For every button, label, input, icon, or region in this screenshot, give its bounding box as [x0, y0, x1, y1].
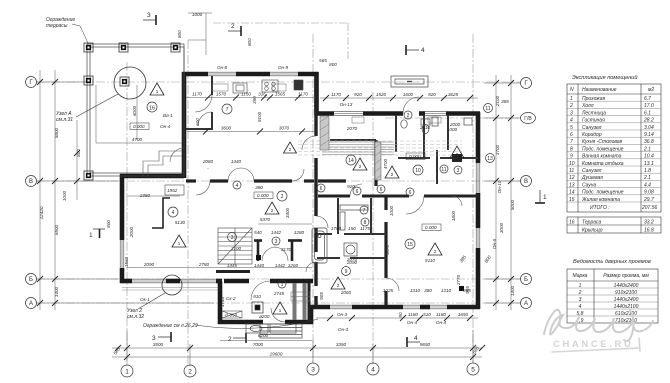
svg-text:Лестница: Лестница	[581, 110, 606, 116]
svg-text:2: 2	[231, 23, 235, 30]
svg-text:33.2: 33.2	[644, 220, 654, 226]
svg-text:5130: 5130	[175, 220, 186, 225]
svg-text:Холл: Холл	[581, 103, 594, 109]
section mark 3 bottom	[158, 332, 171, 342]
top wall kitchen room 7	[182, 72, 208, 77]
svg-text:1440х2400: 1440х2400	[614, 297, 639, 303]
exterior walls	[120, 72, 480, 324]
interior spine wall axis 3	[314, 76, 317, 305]
svg-text:17.0: 17.0	[644, 103, 654, 109]
svg-text:1170: 1170	[298, 92, 308, 97]
left dim texts	[39, 127, 81, 297]
svg-text:965: 965	[465, 286, 470, 294]
svg-text:16: 16	[149, 106, 155, 112]
sink in прихожая	[246, 324, 296, 333]
svg-text:7000: 7000	[253, 342, 264, 347]
hall staircase	[218, 228, 252, 264]
svg-text:4: 4	[172, 210, 175, 216]
svg-text:1600: 1600	[403, 92, 414, 97]
sauna block partitions	[317, 198, 386, 258]
svg-text:1440х2400: 1440х2400	[614, 283, 639, 289]
terrace steps	[143, 151, 182, 176]
svg-text:800: 800	[177, 30, 182, 38]
svg-text:3070: 3070	[279, 126, 290, 131]
upper right wing partitions	[330, 115, 478, 184]
svg-text:⌀200: ⌀200	[259, 314, 270, 319]
svg-text:1180: 1180	[436, 312, 446, 317]
right wall	[476, 112, 481, 163]
svg-text:910: 910	[253, 294, 261, 299]
svg-text:Он-4: Он-4	[160, 124, 171, 129]
section mark 1 left	[93, 229, 105, 238]
svg-text:4700: 4700	[132, 137, 143, 142]
svg-text:Ведомость дверных проемов: Ведомость дверных проемов	[573, 259, 651, 265]
svg-text:2745: 2745	[273, 291, 285, 296]
svg-text:1025: 1025	[383, 288, 394, 293]
svg-text:5110: 5110	[425, 258, 435, 263]
svg-text:1440: 1440	[231, 159, 242, 164]
svg-text:2380: 2380	[139, 193, 151, 198]
svg-text:Он-4: Он-4	[436, 320, 447, 325]
svg-text:14: 14	[569, 190, 575, 196]
svg-text:Г/В: Г/В	[524, 116, 532, 122]
svg-text:1: 1	[125, 368, 129, 375]
svg-text:террасы: террасы	[46, 23, 68, 29]
svg-text:4: 4	[371, 366, 375, 373]
door swing arcs	[170, 95, 462, 322]
svg-text:1000: 1000	[389, 205, 394, 216]
svg-text:3170: 3170	[281, 247, 292, 252]
section line 2-2 dash path	[213, 23, 348, 60]
svg-text:3: 3	[275, 239, 278, 245]
svg-text:16.8: 16.8	[644, 228, 654, 234]
svg-text:Терраса: Терраса	[582, 220, 602, 226]
wc fixtures top wing	[401, 117, 472, 162]
svg-text:Крыльцо: Крыльцо	[582, 228, 603, 234]
vent shaft hatched	[320, 116, 381, 180]
svg-text:9.14: 9.14	[644, 132, 654, 138]
svg-text:1170: 1170	[331, 92, 341, 97]
svg-text:6.1: 6.1	[644, 110, 651, 116]
svg-text:5,8: 5,8	[577, 311, 584, 317]
svg-text:0.000: 0.000	[257, 193, 269, 198]
svg-text:6: 6	[356, 189, 359, 195]
svg-text:16: 16	[569, 220, 575, 226]
svg-text:Ограждение см л.26,29: Ограждение см л.26,29	[143, 323, 198, 329]
svg-text:Сауна: Сауна	[582, 182, 597, 188]
svg-text:CHANCE.RU: CHANCE.RU	[553, 339, 633, 350]
svg-text:2080: 2080	[202, 159, 214, 164]
svg-text:540: 540	[254, 230, 262, 235]
left dim ticks	[37, 79, 80, 306]
svg-text:2: 2	[407, 113, 410, 119]
svg-text:13: 13	[569, 182, 575, 188]
svg-text:2090: 2090	[346, 260, 358, 265]
svg-text:380: 380	[255, 185, 263, 190]
svg-text:см.л.31: см.л.31	[56, 117, 73, 123]
svg-text:0.000: 0.000	[133, 124, 145, 129]
svg-text:Прихожая: Прихожая	[582, 96, 606, 102]
svg-text:8: 8	[570, 146, 573, 152]
svg-text:Размер проема, мм: Размер проема, мм	[603, 273, 649, 279]
svg-text:5370: 5370	[260, 217, 271, 222]
svg-text:Кухня -Столовая: Кухня -Столовая	[582, 139, 623, 145]
svg-text:1: 1	[543, 194, 547, 201]
svg-text:600: 600	[195, 118, 200, 126]
svg-text:Б: Б	[29, 277, 33, 283]
svg-text:7: 7	[570, 139, 573, 145]
svg-text:3: 3	[457, 168, 460, 174]
section mark 3 top	[143, 15, 156, 25]
axis circles right	[521, 78, 536, 309]
svg-text:610х2100: 610х2100	[615, 311, 637, 317]
svg-text:510: 510	[423, 312, 431, 317]
svg-text:2: 2	[188, 368, 192, 375]
svg-text:1175: 1175	[360, 226, 370, 231]
left wall	[120, 268, 125, 283]
step wall x318	[314, 72, 319, 115]
svg-text:3: 3	[231, 235, 234, 241]
svg-text:2770: 2770	[456, 274, 461, 286]
svg-text:6: 6	[409, 190, 412, 196]
svg-text:1520: 1520	[376, 92, 387, 97]
staircase upper corridor stripes	[322, 142, 394, 155]
kitchen dim line	[187, 129, 314, 135]
svg-text:Марка: Марка	[573, 273, 588, 279]
svg-text:В: В	[524, 179, 528, 185]
svg-text:1000: 1000	[62, 190, 67, 201]
svg-text:9650: 9650	[420, 342, 431, 347]
axis circles left	[26, 77, 37, 309]
svg-text:м2: м2	[648, 87, 654, 93]
detail circle node A	[114, 67, 146, 99]
svg-text:Санузел: Санузел	[582, 125, 602, 131]
svg-text:2000: 2000	[129, 226, 134, 238]
svg-text:Гостиная: Гостиная	[582, 118, 605, 124]
tambour shaft walls	[295, 283, 305, 320]
svg-text:2.1: 2.1	[643, 146, 651, 152]
svg-text:380: 380	[424, 288, 432, 293]
svg-text:4.4: 4.4	[644, 182, 651, 188]
svg-text:5: 5	[471, 366, 475, 373]
svg-text:2: 2	[281, 194, 284, 200]
kitchen triangle	[284, 142, 297, 153]
right outer dimension lines	[484, 75, 521, 310]
axis circles bottom	[121, 363, 479, 377]
svg-text:4: 4	[236, 183, 239, 189]
svg-text:Он-3: Он-3	[338, 327, 349, 332]
svg-text:5: 5	[570, 125, 573, 131]
svg-text:2610: 2610	[419, 125, 431, 130]
kitchen counter	[233, 80, 303, 93]
svg-text:Санузел: Санузел	[582, 168, 602, 174]
svg-text:Он-9: Он-9	[278, 65, 289, 70]
svg-text:Ок-1: Ок-1	[140, 297, 150, 302]
svg-text:1310: 1310	[441, 288, 452, 293]
svg-text:1400: 1400	[54, 286, 59, 297]
terrace columns	[84, 43, 180, 180]
svg-text:1400: 1400	[510, 285, 515, 296]
svg-text:2: 2	[228, 336, 232, 343]
bathroom block east wall x376	[376, 140, 386, 305]
terrace sub-table	[567, 217, 661, 233]
svg-text:Ск-2: Ск-2	[226, 296, 236, 301]
watermark	[544, 310, 653, 341]
svg-text:10.4: 10.4	[644, 154, 654, 160]
small wc room in kitchen corner	[186, 76, 212, 130]
svg-text:316: 316	[258, 92, 266, 97]
svg-text:565: 565	[319, 58, 327, 63]
svg-text:Подс. помещение: Подс. помещение	[582, 190, 624, 196]
svg-text:4: 4	[414, 335, 418, 342]
svg-text:920: 920	[428, 92, 436, 97]
svg-text:3: 3	[570, 110, 573, 116]
top small dims near section 3	[188, 13, 212, 55]
svg-text:9100: 9100	[257, 111, 262, 122]
svg-text:1280: 1280	[294, 230, 305, 235]
section mark 2 top	[228, 26, 241, 36]
porch steps	[260, 324, 302, 338]
svg-text:3: 3	[152, 335, 156, 342]
svg-text:А: А	[29, 301, 33, 307]
svg-text:1: 1	[281, 282, 284, 288]
svg-text:1: 1	[89, 232, 93, 239]
svg-text:15: 15	[407, 242, 413, 248]
svg-text:5800: 5800	[54, 127, 59, 138]
svg-text:1952: 1952	[167, 188, 178, 193]
svg-text:Жилая комната: Жилая комната	[581, 197, 620, 203]
svg-text:12: 12	[569, 175, 575, 181]
svg-text:28.2: 28.2	[643, 118, 654, 124]
svg-text:2100: 2100	[495, 95, 500, 107]
svg-text:14: 14	[348, 158, 354, 164]
svg-text:1140: 1140	[476, 130, 481, 140]
svg-text:9.08: 9.08	[644, 190, 654, 196]
svg-text:9: 9	[570, 154, 573, 160]
svg-text:1440х2100: 1440х2100	[614, 304, 639, 310]
svg-text:1000: 1000	[192, 12, 203, 17]
svg-text:920: 920	[347, 184, 355, 189]
svg-text:см.л.32: см.л.32	[127, 314, 144, 320]
section mark 4 top right	[406, 45, 419, 55]
svg-text:6500: 6500	[54, 224, 59, 235]
top edge of living room to terrace	[120, 174, 184, 179]
svg-text:19600: 19600	[270, 352, 283, 357]
svg-text:3: 3	[147, 12, 151, 19]
svg-text:2070: 2070	[346, 126, 358, 131]
svg-text:Ва-1: Ва-1	[163, 113, 173, 118]
north wall right wing	[316, 111, 334, 116]
hall lower step	[309, 305, 314, 324]
svg-text:Комната отдыха: Комната отдыха	[582, 161, 624, 167]
svg-text:1560: 1560	[124, 256, 129, 267]
radiator rects	[212, 84, 441, 123]
room 16 circle	[147, 102, 157, 112]
axis grid lines	[36, 34, 521, 365]
svg-text:6: 6	[570, 132, 573, 138]
svg-text:11: 11	[441, 167, 446, 173]
svg-text:1442: 1442	[271, 230, 282, 235]
svg-text:800: 800	[106, 220, 111, 228]
svg-text:В: В	[29, 179, 33, 185]
svg-text:207.56: 207.56	[641, 205, 658, 211]
svg-text:1700: 1700	[331, 226, 342, 231]
svg-text:1800: 1800	[451, 210, 456, 221]
svg-text:13: 13	[487, 156, 493, 162]
svg-text:150: 150	[348, 226, 356, 231]
svg-text:1180: 1180	[408, 312, 418, 317]
room number circles	[168, 104, 495, 289]
svg-text:800: 800	[76, 149, 81, 157]
svg-text:Он-3: Он-3	[337, 312, 348, 317]
svg-text:90: 90	[398, 312, 403, 318]
corridor south wall y196	[318, 195, 478, 198]
svg-text:385: 385	[501, 99, 509, 104]
svg-text:3: 3	[579, 297, 582, 303]
terrace railing	[87, 44, 184, 176]
svg-text:1: 1	[570, 96, 573, 102]
roof vent box	[391, 76, 428, 87]
svg-text:4: 4	[579, 304, 582, 310]
svg-text:4700: 4700	[383, 158, 388, 169]
svg-text:Экспликация помещений: Экспликация помещений	[572, 74, 638, 81]
svg-text:3600: 3600	[221, 126, 232, 131]
svg-text:7: 7	[363, 208, 366, 214]
svg-text:1570: 1570	[216, 92, 227, 97]
svg-text:1650: 1650	[458, 312, 469, 317]
svg-text:2: 2	[569, 103, 573, 109]
svg-text:6000: 6000	[132, 105, 137, 116]
svg-text:2.1: 2.1	[643, 175, 651, 181]
svg-text:5000: 5000	[510, 199, 515, 210]
windows (thin triple lines in wall gaps)	[120, 72, 480, 309]
upper window dim chain room7	[186, 95, 478, 102]
floor drain	[252, 302, 263, 313]
left wall upper (terrace side)	[182, 72, 187, 178]
misc interior dim texts	[124, 58, 509, 307]
svg-text:Коридор: Коридор	[582, 132, 602, 138]
living room dim lines	[126, 196, 312, 268]
bath	[312, 205, 368, 263]
svg-text:1000: 1000	[447, 127, 458, 132]
svg-text:..: ..	[207, 165, 210, 170]
svg-text:1745: 1745	[220, 296, 225, 307]
svg-text:800: 800	[329, 62, 337, 67]
svg-text:10: 10	[415, 168, 421, 174]
svg-text:Б: Б	[524, 277, 528, 283]
svg-text:N: N	[570, 87, 574, 93]
svg-text:920: 920	[354, 92, 362, 97]
svg-text:1565: 1565	[275, 92, 286, 97]
svg-text:800: 800	[247, 38, 252, 46]
svg-text:11: 11	[485, 106, 490, 112]
svg-text:3400: 3400	[285, 207, 290, 218]
svg-text:3000: 3000	[499, 222, 504, 233]
svg-text:6200: 6200	[258, 333, 269, 338]
svg-text:15: 15	[569, 197, 575, 203]
svg-text:6: 6	[320, 186, 323, 192]
bottom wall living room axis Б	[216, 279, 222, 284]
svg-text:ИТОГО :: ИТОГО :	[590, 205, 610, 211]
svg-text:1: 1	[579, 283, 582, 289]
detail circle node 2	[162, 275, 182, 295]
svg-text:1310: 1310	[410, 288, 421, 293]
svg-text:2090: 2090	[143, 262, 155, 267]
svg-text:1.8: 1.8	[644, 168, 651, 174]
svg-text:Он-13: Он-13	[340, 102, 353, 107]
svg-text:Он-8: Он-8	[217, 65, 228, 70]
svg-text:10: 10	[569, 161, 575, 167]
svg-text:Он-10: Он-10	[497, 180, 502, 193]
svg-text:3: 3	[311, 366, 315, 373]
svg-text:12430: 12430	[39, 206, 44, 219]
section mark 2 bottom	[233, 333, 246, 343]
terrace dims	[96, 85, 182, 143]
svg-text:5670: 5670	[385, 244, 390, 255]
svg-text:Наименование: Наименование	[582, 87, 617, 93]
svg-text:1170: 1170	[192, 92, 202, 97]
left outer dimension lines	[36, 70, 214, 310]
svg-text:6.7: 6.7	[644, 96, 651, 102]
svg-text:Он-4: Он-4	[407, 320, 418, 325]
svg-text:2780: 2780	[198, 262, 210, 267]
svg-text:Подс. помещение: Подс. помещение	[582, 146, 624, 152]
interior wall y181 right stub	[318, 179, 346, 182]
bottom wall right wing	[447, 305, 480, 310]
svg-text:6: 6	[380, 187, 383, 193]
triangle room class marks	[150, 83, 464, 314]
svg-text:Он-6: Он-6	[492, 238, 497, 249]
svg-text:3.04: 3.04	[644, 125, 654, 131]
svg-text:9: 9	[345, 269, 348, 275]
svg-text:4: 4	[570, 118, 573, 124]
svg-text:7: 7	[226, 107, 229, 113]
bottom interior dim chain	[316, 315, 478, 321]
svg-text:13.1: 13.1	[644, 161, 654, 167]
section mark 1 right	[535, 190, 545, 203]
svg-text:Ванная комната: Ванная комната	[582, 154, 622, 160]
svg-text:390: 390	[252, 96, 257, 104]
svg-text:910х2100: 910х2100	[615, 290, 637, 296]
interior wall y181 left part	[186, 179, 314, 182]
section mark 4 bottom	[407, 337, 420, 347]
svg-text:11: 11	[569, 168, 574, 174]
svg-text:2: 2	[578, 290, 582, 296]
fireplace	[152, 198, 170, 228]
svg-text:36.8: 36.8	[644, 139, 654, 145]
svg-text:905: 905	[319, 292, 324, 300]
svg-text:1150: 1150	[241, 92, 251, 97]
hall closet partitions	[254, 240, 302, 261]
small fixtures	[256, 255, 261, 260]
svg-text:А: А	[524, 301, 528, 307]
svg-text:3700: 3700	[495, 144, 500, 155]
elevation label 0.000 terrace	[130, 123, 149, 130]
svg-text:3500: 3500	[153, 342, 164, 347]
svg-text:29.7: 29.7	[643, 197, 654, 203]
svg-text:Душевая: Душевая	[581, 175, 603, 181]
elevation boxes	[222, 153, 441, 318]
bottom dimension lines	[112, 330, 482, 366]
svg-text:4: 4	[421, 47, 425, 54]
svg-text:2060: 2060	[340, 290, 352, 295]
svg-text:3350: 3350	[336, 342, 347, 347]
svg-text:0.000: 0.000	[425, 225, 437, 230]
svg-text:3625: 3625	[448, 92, 459, 97]
